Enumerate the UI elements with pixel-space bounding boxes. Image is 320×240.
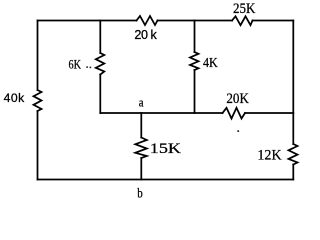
wire 4K branch upper lead (194, 21, 196, 53)
value label 25K (233, 1, 256, 17)
svg-text:4K: 4K (203, 55, 218, 70)
wire right lower (292, 165, 294, 180)
value label 20K (226, 91, 249, 107)
resistor 25K (232, 16, 253, 25)
wire top-middle segment (158, 20, 233, 22)
wire right upper (292, 21, 294, 145)
wire 6K branch lower lead (99, 75, 101, 114)
wire 6K branch upper lead (99, 21, 101, 54)
wire left lower (37, 111, 39, 180)
svg-text:b: b (137, 186, 143, 201)
svg-text:6K: 6K (69, 56, 82, 71)
resistor 20k (top) (137, 16, 158, 25)
stray dot (237, 130, 239, 132)
node a (139, 95, 144, 110)
wire middle-left segment (100, 112, 222, 114)
wire 15K upper lead (140, 113, 142, 138)
value label 6K (69, 56, 82, 71)
resistor 15K (135, 138, 147, 159)
wire bottom (38, 179, 294, 181)
wire top-left segment (38, 20, 137, 22)
wire middle-right segment (245, 112, 293, 114)
resistor 12K (289, 144, 298, 165)
dots after 6K (86, 66, 91, 68)
resistor 4K (190, 52, 199, 70)
svg-text:20K: 20K (226, 91, 249, 107)
svg-text:a: a (139, 95, 144, 110)
svg-text:12K: 12K (257, 147, 282, 163)
wire left upper (37, 21, 39, 91)
resistor 6K (96, 53, 105, 75)
svg-text:25K: 25K (233, 1, 256, 17)
node b (137, 186, 143, 201)
svg-text:40k: 40k (4, 91, 26, 105)
resistor 20K (middle) (223, 108, 246, 119)
value label 20k (134, 28, 157, 42)
value label 4K (203, 55, 218, 70)
value label 15K (150, 141, 182, 157)
svg-text:20 k: 20 k (134, 28, 157, 42)
value label 12K (257, 147, 282, 163)
svg-text:15K: 15K (150, 141, 182, 157)
wire 15K lower lead (140, 158, 142, 180)
value label 40k (4, 91, 26, 105)
wire top-right segment (253, 20, 294, 22)
wire 4K branch lower lead (194, 70, 196, 113)
resistor 40k (34, 90, 42, 111)
